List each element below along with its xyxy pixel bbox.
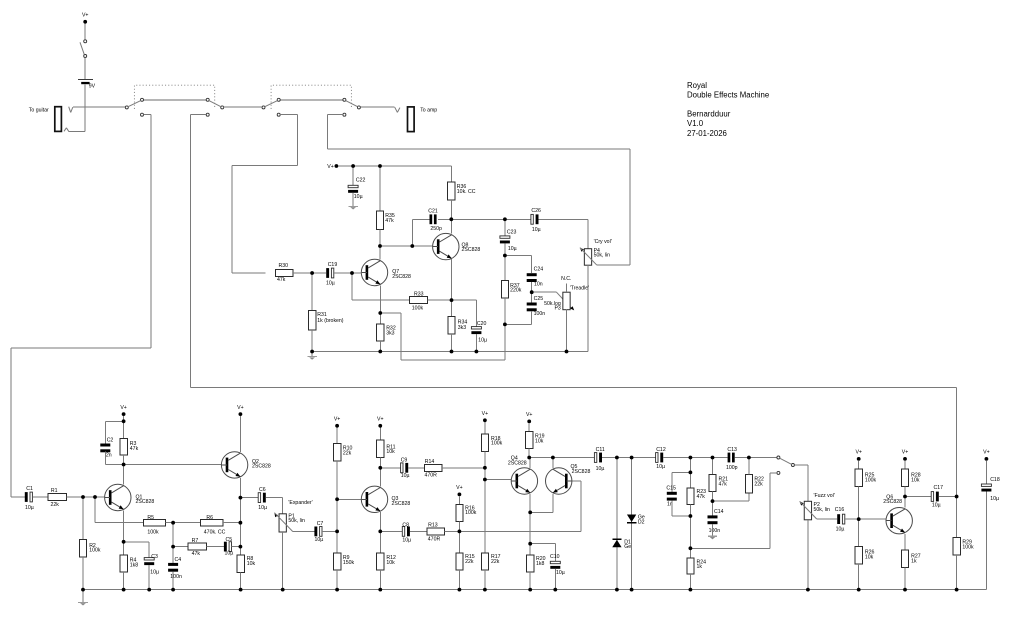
svg-text:C25: C25 [534,296,544,302]
svg-text:22k: 22k [754,481,763,487]
svg-text:1k8: 1k8 [536,561,544,567]
svg-text:V+: V+ [334,417,341,423]
svg-text:10µ: 10µ [556,570,565,576]
svg-text:10µ: 10µ [401,473,410,479]
svg-text:V+: V+ [237,405,244,411]
svg-text:100k: 100k [89,548,101,554]
svg-text:150k: 150k [343,560,355,566]
svg-text:C16: C16 [835,507,845,513]
svg-text:R30: R30 [279,263,289,269]
svg-text:Royal: Royal [687,81,707,90]
svg-text:C3: C3 [151,554,158,560]
svg-text:C2: C2 [107,438,114,444]
svg-text:C5: C5 [226,537,233,543]
svg-text:100p: 100p [726,465,738,471]
svg-text:50k, lin: 50k, lin [288,518,305,524]
svg-text:2SC828: 2SC828 [462,247,481,253]
svg-text:50k, lin: 50k, lin [594,253,611,259]
svg-text:C18: C18 [990,477,1000,483]
svg-text:C6: C6 [259,487,266,493]
svg-text:47k: 47k [130,446,139,452]
svg-text:470k. CC: 470k. CC [204,529,226,535]
svg-text:470R: 470R [425,473,438,479]
svg-text:C8: C8 [402,522,409,528]
svg-text:10k: 10k [386,560,395,566]
svg-text:47k: 47k [277,277,286,283]
svg-text:C17: C17 [934,485,944,491]
svg-text:22k: 22k [491,559,500,565]
svg-text:V+: V+ [526,412,533,418]
svg-text:2SC828: 2SC828 [508,460,527,466]
svg-text:2SC828: 2SC828 [252,464,271,470]
svg-text:'Cry vol': 'Cry vol' [594,239,612,245]
svg-text:22k: 22k [51,502,60,508]
svg-text:C13: C13 [727,447,737,453]
svg-text:1k8: 1k8 [130,562,138,568]
svg-text:10k: 10k [865,555,874,561]
svg-text:10µ: 10µ [478,337,487,343]
svg-text:To guitar: To guitar [29,107,49,113]
svg-text:V+: V+ [983,450,990,456]
svg-text:C15: C15 [666,486,676,492]
svg-text:V+: V+ [855,450,862,456]
svg-text:C4: C4 [175,557,182,563]
svg-text:10µ: 10µ [532,227,541,233]
svg-text:R13: R13 [428,522,438,528]
svg-text:100k: 100k [147,529,159,535]
svg-text:P3: P3 [554,306,560,312]
svg-text:V+: V+ [377,417,384,423]
svg-text:22k: 22k [343,451,352,457]
svg-text:V+: V+ [327,164,334,170]
svg-text:C14: C14 [714,509,724,515]
svg-text:100n: 100n [709,528,721,534]
svg-text:C20: C20 [477,321,487,327]
svg-text:10µ: 10µ [508,246,517,252]
svg-text:C19: C19 [328,262,338,268]
svg-text:10k: 10k [247,561,256,567]
svg-text:R6: R6 [206,515,213,521]
svg-text:1k: 1k [697,564,703,570]
svg-text:Ge: Ge [624,544,631,550]
svg-text:47k: 47k [697,494,706,500]
svg-text:47k: 47k [385,218,394,224]
svg-text:2SC828: 2SC828 [136,499,155,505]
svg-text:Bernardduur: Bernardduur [687,110,731,119]
svg-text:3k3: 3k3 [386,330,394,336]
svg-text:R33: R33 [414,291,424,297]
svg-text:10k. CC: 10k. CC [457,189,476,195]
svg-text:10µ: 10µ [656,464,665,470]
svg-text:47k: 47k [192,551,201,557]
svg-text:C26: C26 [531,208,541,214]
svg-text:V+: V+ [482,411,489,417]
svg-text:C10: C10 [550,554,560,560]
svg-text:10µ: 10µ [354,194,363,200]
svg-text:'Treadle': 'Treadle' [570,286,589,292]
svg-text:10µ: 10µ [596,466,605,472]
svg-text:C21: C21 [428,208,438,214]
svg-text:V+: V+ [120,405,127,411]
svg-text:10k: 10k [535,438,544,444]
svg-text:V1.0: V1.0 [687,119,704,128]
svg-text:100k: 100k [962,545,974,551]
svg-text:C22: C22 [356,178,366,184]
svg-text:C1: C1 [26,486,33,492]
svg-text:R1: R1 [51,488,58,494]
svg-text:50k, lin: 50k, lin [814,507,831,513]
svg-text:9V: 9V [89,83,96,89]
svg-text:'Expander': 'Expander' [288,500,312,506]
svg-text:Double Effects Machine: Double Effects Machine [687,91,769,100]
svg-text:10k: 10k [386,449,395,455]
svg-text:V+: V+ [82,13,89,19]
svg-text:100n: 100n [170,574,182,580]
svg-text:10µ: 10µ [258,505,267,511]
svg-text:C12: C12 [656,447,666,453]
svg-text:10µ: 10µ [990,496,999,502]
svg-text:27-01-2026: 27-01-2026 [687,129,727,138]
svg-text:220k: 220k [510,288,522,294]
svg-text:R14: R14 [425,459,435,465]
svg-text:1k: 1k [911,558,917,564]
svg-text:2SC828: 2SC828 [392,501,411,507]
svg-text:100k: 100k [412,305,424,311]
svg-text:C7: C7 [317,521,324,527]
svg-text:2SC828: 2SC828 [883,499,902,505]
svg-text:2SC828: 2SC828 [392,274,411,280]
svg-text:To amp: To amp [420,108,437,114]
svg-text:D2: D2 [638,519,645,525]
svg-text:100k: 100k [865,477,877,483]
svg-text:10n: 10n [534,281,543,287]
svg-text:R5: R5 [147,515,154,521]
svg-text:R7: R7 [192,538,199,544]
svg-text:10µ: 10µ [836,527,845,533]
svg-text:10µ: 10µ [225,551,234,557]
svg-text:470R: 470R [428,536,441,542]
svg-text:10µ: 10µ [932,502,941,508]
svg-text:C24: C24 [534,267,544,273]
svg-text:C11: C11 [596,447,605,453]
svg-text:10µ: 10µ [326,281,335,287]
svg-text:100k: 100k [491,441,503,447]
svg-text:100k: 100k [465,510,477,516]
svg-text:1k (broken): 1k (broken) [317,318,344,324]
svg-text:10µ: 10µ [150,570,159,576]
svg-text:47k: 47k [719,481,728,487]
svg-text:V+: V+ [902,450,909,456]
svg-text:22k: 22k [465,559,474,565]
svg-text:250p: 250p [430,226,442,232]
svg-text:10k: 10k [911,477,920,483]
svg-text:C9: C9 [401,458,408,464]
svg-text:2n: 2n [106,452,112,458]
svg-text:10µ: 10µ [315,537,324,543]
svg-text:3k3: 3k3 [458,325,466,331]
svg-text:100n: 100n [534,311,546,317]
svg-text:10µ: 10µ [402,538,411,544]
svg-text:'Fuzz vol': 'Fuzz vol' [814,493,835,499]
svg-text:10µ: 10µ [25,505,34,511]
svg-text:2SC828: 2SC828 [572,469,591,475]
svg-text:C23: C23 [507,229,517,235]
svg-text:V+: V+ [456,485,463,491]
svg-text:N.C.: N.C. [561,276,571,282]
